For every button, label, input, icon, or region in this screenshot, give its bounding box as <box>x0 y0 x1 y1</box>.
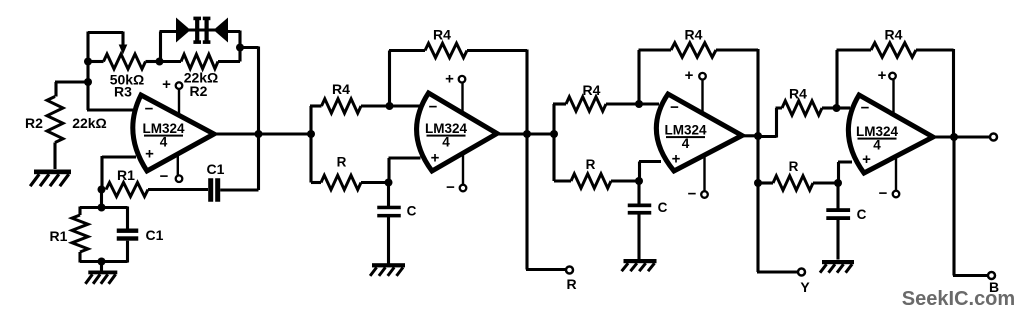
wire U2 inverting input <box>390 104 421 107</box>
op-amp U2 LM324 <box>417 93 497 171</box>
node output U1 feedback junction <box>255 130 263 138</box>
svg-text:−: − <box>446 179 455 196</box>
svg-text:−: − <box>145 101 154 118</box>
svg-text:+: + <box>672 151 681 168</box>
svg-text:22kΩ: 22kΩ <box>72 115 107 131</box>
svg-text:C1: C1 <box>146 227 164 243</box>
wire diode pair right down <box>228 31 240 62</box>
svg-text:+: + <box>862 151 871 168</box>
terminal output right <box>990 134 997 141</box>
svg-text:SeekIC.com: SeekIC.com <box>902 288 1015 310</box>
op-amp U4 LM324 <box>848 95 933 173</box>
wire feedback vertical up stage4 <box>835 50 838 109</box>
node tank top <box>98 204 106 212</box>
svg-text:4: 4 <box>873 138 881 153</box>
svg-text:+: + <box>162 76 171 93</box>
node junction R3 right / R2 / diodes <box>156 58 164 66</box>
svg-text:4: 4 <box>682 136 690 151</box>
wire down to parallel tank <box>100 190 103 208</box>
wire U1 output <box>214 132 311 135</box>
svg-text:4: 4 <box>442 135 450 150</box>
resistor R4 feedback stage4 <box>837 48 872 51</box>
node U3 output <box>754 132 762 140</box>
node R/C junction stage3 <box>635 177 643 185</box>
wire feedback vertical up stage2 <box>388 51 391 107</box>
node junction +input / R1 / tank <box>98 186 106 194</box>
wire U4 output <box>933 135 990 138</box>
wire U3 non-inverting input <box>639 162 661 182</box>
wire U4 non-inverting input <box>838 162 852 184</box>
svg-text:+: + <box>431 150 440 167</box>
resistor R4 input stage2 <box>310 104 322 107</box>
svg-text:+: + <box>685 67 694 84</box>
svg-text:+: + <box>878 67 887 84</box>
svg-text:C: C <box>407 204 417 219</box>
wire to B terminal <box>953 138 988 276</box>
node U2 output / feedback <box>523 130 531 138</box>
svg-text:R: R <box>566 276 576 292</box>
ground for C stage2 <box>372 263 405 267</box>
capacitor C1 parallel <box>126 207 129 230</box>
svg-text:R: R <box>586 157 596 172</box>
wire U2 non-inverting input <box>389 158 421 183</box>
svg-text:R: R <box>337 155 347 170</box>
svg-text:R4: R4 <box>433 27 451 43</box>
svg-text:Y: Y <box>800 279 810 295</box>
terminal B output <box>988 272 995 279</box>
wire C1 to output node <box>220 188 258 191</box>
wire feedback vertical up stage3 <box>637 50 640 105</box>
resistor R input stage4 <box>758 181 773 184</box>
op-amp U1 power rail line <box>178 89 179 175</box>
node R/C junction stage4 <box>834 179 842 187</box>
node tank bottom <box>98 258 106 266</box>
wire to ground <box>100 262 103 272</box>
node R4/feedback junction stage4 <box>833 104 841 112</box>
svg-text:R3: R3 <box>114 84 132 100</box>
ground for C stage3 <box>624 259 657 263</box>
svg-text:R2: R2 <box>25 115 43 131</box>
wire stage2 input split vertical <box>309 106 312 183</box>
node stage2 input <box>307 130 315 138</box>
wire U3 output <box>742 134 758 137</box>
resistor R input stage3 <box>554 179 571 182</box>
resistor R input stage2 <box>311 181 321 184</box>
op-amp U2 power rail line <box>461 83 464 184</box>
svg-text:R4: R4 <box>685 27 703 43</box>
svg-text:R4: R4 <box>789 86 807 102</box>
node junction R3 left <box>84 58 92 66</box>
resistor R4 input stage4 <box>782 101 822 115</box>
svg-text:R: R <box>789 159 799 174</box>
op-amp U1 LM324 <box>133 95 214 171</box>
node junction minus-input / R2gnd <box>84 78 92 86</box>
svg-text:R1: R1 <box>117 167 135 183</box>
wire op-amp U1 inverting input <box>87 108 134 111</box>
node R4/feedback junction stage3 <box>635 100 643 108</box>
svg-text:−: − <box>160 168 169 185</box>
svg-text:−: − <box>879 185 888 202</box>
node junction diode/R2/feedback <box>236 44 244 52</box>
svg-text:−: − <box>670 99 679 116</box>
wire U2 output <box>497 132 554 135</box>
capacitor C stage2 <box>387 183 390 207</box>
wire left vertical to inverting input <box>86 32 89 111</box>
wire R3 wiper arrow <box>121 32 124 47</box>
svg-text:4: 4 <box>160 135 168 150</box>
resistor R2 22k feedback <box>160 60 182 63</box>
wire U3 inverting input <box>639 102 659 105</box>
svg-text:+: + <box>445 71 454 88</box>
wire tank bottom rail <box>80 260 128 263</box>
resistor R1 parallel vertical <box>78 207 81 216</box>
wire U4 inverting input <box>837 106 851 109</box>
wire to R terminal <box>526 134 566 270</box>
capacitor C1 feedback <box>208 178 213 202</box>
wire op-amp U1 non-inverting input <box>102 156 136 190</box>
resistor R4 input stage3 <box>553 102 566 105</box>
svg-text:C: C <box>857 207 867 222</box>
wire pot-wiper top loop <box>88 31 123 34</box>
svg-text:C: C <box>658 200 668 215</box>
terminal Y output <box>798 269 805 276</box>
wire to Y terminal and stage4 R <box>757 136 798 273</box>
node stage4 R branch <box>754 179 762 187</box>
wire feedback branch down to output node <box>239 47 259 191</box>
ground for C stage4 <box>822 260 854 264</box>
diode pair CR1 back-to-back zeners <box>176 18 191 43</box>
op-amp U3 power rail line <box>703 80 705 191</box>
capacitor C stage4 <box>836 183 839 209</box>
svg-text:R4: R4 <box>332 81 350 97</box>
node U4 output <box>950 133 958 141</box>
op-amp U4 power rail line <box>894 80 897 191</box>
op-amp U3 LM324 <box>656 94 742 171</box>
node U2 output / stage3 <box>550 130 558 138</box>
svg-text:+: + <box>145 146 154 163</box>
svg-text:R1: R1 <box>50 228 68 244</box>
capacitor C stage3 <box>637 181 640 204</box>
wire up to diode pair <box>160 32 177 63</box>
wire input R2 ground branch <box>55 82 88 97</box>
svg-text:R2: R2 <box>190 83 208 99</box>
ground for tank <box>88 271 117 275</box>
resistor R3 50k potentiometer <box>88 60 104 63</box>
svg-text:−: − <box>429 99 438 116</box>
resistor R2 22k input vertical <box>47 97 63 143</box>
node R4/feedback junction stage2 <box>386 102 394 110</box>
svg-text:R4: R4 <box>885 27 903 43</box>
wire tank top rail <box>80 206 128 209</box>
svg-text:C1: C1 <box>207 161 225 177</box>
svg-text:−: − <box>688 186 697 203</box>
svg-text:R4: R4 <box>583 82 601 98</box>
ground for R2 <box>34 170 71 175</box>
svg-text:−: − <box>861 100 870 117</box>
node R/C junction stage2 <box>385 179 393 187</box>
wire stage4 R4 jog <box>758 108 782 138</box>
terminal R output <box>566 267 573 274</box>
resistor R1 feedback horizontal <box>106 183 148 197</box>
wire stage3 input split vertical <box>552 104 555 181</box>
resistor R4 feedback stage2 <box>389 49 425 52</box>
resistor R4 feedback stage3 <box>639 48 672 51</box>
